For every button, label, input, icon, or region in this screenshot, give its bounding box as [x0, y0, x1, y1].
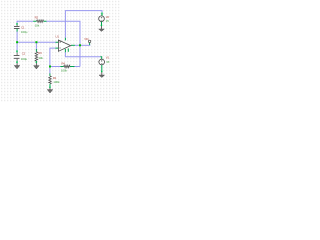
pin end tick V1 bottom [101, 71, 103, 72]
wire V+ rail [65, 11, 102, 38]
wire R2 right to output column [46, 21, 80, 66]
wire inverting corner [50, 48, 55, 73]
junction node at C1/C2 tap [16, 41, 18, 43]
svg-text:15: 15 [106, 60, 110, 64]
ground under C2 [14, 63, 20, 69]
wire C1 bottom to C2 top [16, 31, 18, 50]
pin end tick C1 top [16, 23, 18, 24]
capacitor C1 top pin [16, 23, 18, 25]
pin end tick R1 bottom [49, 87, 51, 88]
op-amp U1 power pins [64, 38, 66, 53]
wire R3 column [35, 42, 37, 49]
capacitor C2 plates [14, 55, 20, 58]
svg-text:15: 15 [106, 19, 110, 23]
resistor R1 bottom pin [49, 84, 51, 88]
svg-text:100µ: 100µ [21, 57, 28, 61]
resistor R3 top pin [35, 49, 37, 52]
voltage source V2 top pin [101, 12, 103, 16]
voltage source V1 top pin [100, 57, 101, 59]
pin end tick R3 bottom [36, 62, 38, 63]
svg-text:100k: 100k [53, 80, 60, 84]
probe VF1 circle [88, 40, 90, 42]
svg-text:10k: 10k [38, 56, 43, 60]
svg-text:100k: 100k [61, 69, 68, 73]
wire C1 top stub [16, 21, 18, 23]
wire output [75, 44, 91, 46]
svg-text:100µ: 100µ [21, 30, 28, 34]
op-amp U1 output pin [71, 44, 75, 46]
resistor R4 body [64, 65, 70, 68]
junction node at feedback tap [49, 66, 51, 68]
wire noninverting rail [17, 41, 56, 43]
svg-text:10k: 10k [35, 24, 40, 28]
probe VF1 stem [89, 43, 91, 45]
wire input top rail [17, 20, 33, 22]
op-amp plus mark [59, 41, 61, 43]
voltage source V2 circle [99, 16, 105, 22]
ground under R1 [47, 88, 53, 93]
resistor R1 top pin [49, 73, 51, 76]
wire feedback row left [50, 66, 60, 68]
ground under V1 [99, 72, 105, 78]
resistor R4 pins [60, 66, 74, 68]
op-amp minus mark [59, 47, 61, 49]
resistor R2 body [37, 20, 44, 23]
svg-text:VF1: VF1 [84, 37, 89, 41]
op-amp U1 input pins [55, 42, 58, 48]
voltage source V1 circle [99, 59, 105, 65]
junction node at output [79, 44, 81, 46]
capacitor C2 bottom pin [16, 61, 18, 63]
svg-text:R2: R2 [35, 15, 39, 19]
resistor R1 body [49, 76, 52, 84]
pin end tick C2 top [16, 51, 18, 52]
op-amp U1 triangle [58, 40, 70, 51]
capacitor C1 plates [14, 26, 20, 28]
capacitor C2 top pin [16, 50, 18, 52]
resistor R3 bottom pin [35, 61, 37, 63]
pin end tick C2 bottom [16, 62, 18, 63]
ground under R3 [34, 63, 40, 69]
op-amp U1 NC pin [67, 48, 69, 51]
junction node at R3 tap [35, 41, 37, 43]
resistor R3 body [35, 52, 38, 61]
resistor R2 pins [33, 20, 46, 22]
capacitor C2 bottom stub [16, 59, 18, 61]
ground under V2 [99, 26, 105, 32]
wire V- rail [65, 52, 100, 57]
pin end tick V2 top [101, 13, 103, 14]
pin end tick V2 bottom [101, 25, 103, 26]
capacitor C1 bottom pin [16, 29, 18, 32]
wire feedback row right [74, 66, 80, 68]
voltage source V1 bottom pin [101, 65, 103, 72]
voltage source V2 bottom pin [101, 22, 103, 26]
